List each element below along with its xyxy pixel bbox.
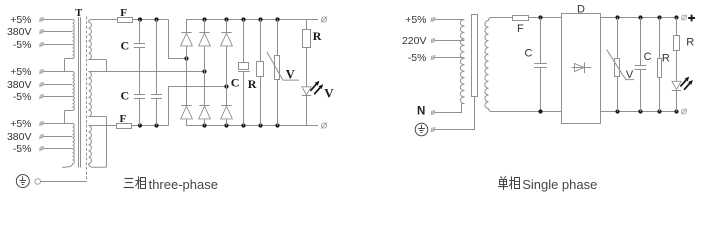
node negative rail x277.5 <box>275 123 279 127</box>
svg-text:+5%: +5% <box>10 66 31 78</box>
terminal row9 <box>40 147 43 150</box>
wire negative rail (single phase) <box>601 111 677 113</box>
bridge rectifier D box <box>562 14 601 124</box>
svg-text:380V: 380V <box>7 131 32 143</box>
svg-text:V: V <box>324 86 334 101</box>
wire ground to core <box>435 97 475 130</box>
single-phase terminal row3 <box>431 56 434 59</box>
wire tap row7 <box>43 123 72 125</box>
svg-text:C: C <box>121 88 130 102</box>
terminal row7 <box>40 122 43 125</box>
svg-text:C: C <box>644 51 652 63</box>
node negative rail x243.5 <box>241 123 245 127</box>
transformer primary winding (single phase) <box>460 20 464 104</box>
fuse F top <box>118 18 133 23</box>
transformer secondary winding (single phase) <box>489 18 513 21</box>
terminal row6 <box>40 95 43 98</box>
node negative rail sp x640.5 <box>638 109 642 113</box>
wire phase B <box>89 71 205 73</box>
svg-text:220V: 220V <box>402 35 427 47</box>
node positive rail x260.5 <box>258 17 262 21</box>
diode symbol inside D <box>572 67 592 69</box>
wire single-phase tap row2 <box>435 40 465 42</box>
wire primary bottom end <box>62 164 73 168</box>
ground terminal (single phase) <box>431 128 434 131</box>
diode D3 top (column 3) <box>226 20 228 33</box>
node filter cap bottom <box>538 109 542 113</box>
node phase C cap junction 1 <box>138 123 142 127</box>
wire N <box>435 104 465 113</box>
transformer T primary winding section 3 <box>73 124 75 164</box>
node positive rail x204.5 <box>202 17 206 21</box>
varistor V (single phase) <box>617 18 619 59</box>
wire secondary jog 1 <box>89 60 107 72</box>
node negative rail x204.5 <box>202 123 206 127</box>
N terminal <box>431 111 434 114</box>
svg-text:-5%: -5% <box>13 91 32 103</box>
wire column 2 mid <box>204 72 206 106</box>
svg-text:+5%: +5% <box>405 14 426 26</box>
wire phase A jog down <box>169 20 187 59</box>
node filter cap top <box>538 15 542 19</box>
node phase A cap junction 1 <box>138 17 142 21</box>
transformer T secondary winding section 3 <box>89 126 92 164</box>
svg-text:F: F <box>517 23 524 35</box>
varistor V <box>277 20 279 56</box>
terminal row1 <box>40 18 43 21</box>
wire tap row2 <box>43 31 72 33</box>
terminal positive output <box>321 17 326 22</box>
svg-text:-5%: -5% <box>13 39 32 51</box>
ground earth symbol (single phase) <box>415 123 428 136</box>
diode D6 bottom (column 3) <box>221 105 231 107</box>
svg-text:R: R <box>248 77 257 91</box>
transformer T secondary winding section 2 <box>89 72 92 117</box>
svg-text:V: V <box>286 68 295 82</box>
transformer T core line 2 <box>80 17 82 168</box>
single-phase terminal row1 <box>431 18 434 21</box>
wire tap row8 <box>43 136 72 138</box>
wire tap row9 <box>43 148 72 150</box>
transformer T core line 1 <box>78 17 80 168</box>
node positive rail x243.5 <box>241 17 245 21</box>
fuse F bottom <box>117 124 132 129</box>
node phase A bridge junction <box>184 56 188 60</box>
svg-text:V: V <box>626 69 634 81</box>
wire tap row4 <box>43 71 72 73</box>
LED V indicator <box>302 87 311 95</box>
svg-text:R: R <box>662 53 670 65</box>
caption three-phase hanzi xiang <box>135 176 145 189</box>
node positive rail sp x659.5 <box>657 15 661 19</box>
wire phase A <box>106 19 118 21</box>
node negative rail x260.5 <box>258 123 262 127</box>
diode D5 bottom (column 2) <box>199 105 209 107</box>
wire ground to shield <box>41 181 87 183</box>
svg-text:N: N <box>417 106 425 118</box>
diode D2 top (column 2) <box>204 20 206 33</box>
terminal row5 <box>40 83 43 86</box>
transformer T primary winding section 1 <box>73 20 75 59</box>
resistor R indicator (single phase) <box>676 18 678 36</box>
caption single-phase hanzi xiang <box>509 176 520 189</box>
node positive rail sp x676.5 <box>674 15 678 19</box>
wire single-phase tap row3 <box>435 57 465 59</box>
svg-text:C: C <box>121 39 130 53</box>
wire phase C <box>89 125 117 127</box>
capacitor C (single phase branch) <box>640 18 642 66</box>
transformer T secondary winding section 1 <box>89 20 113 23</box>
svg-text:-5%: -5% <box>408 52 427 64</box>
resistor R bleeder <box>260 20 262 62</box>
resistor R indicator <box>306 20 308 30</box>
node negative rail x226.5 <box>224 123 228 127</box>
svg-text:three-phase: three-phase <box>149 177 218 192</box>
wire tap row3 <box>43 44 72 46</box>
caption single-phase hanzi dan <box>498 176 508 190</box>
wire secondary jog 2 <box>89 117 107 126</box>
svg-text:380V: 380V <box>7 26 32 38</box>
node negative rail sp x659.5 <box>657 109 661 113</box>
wire tap row6 <box>43 96 72 98</box>
wire tap row5 <box>43 84 72 86</box>
capacitor C snubber (box style) <box>243 20 245 63</box>
wire tap row1 <box>43 19 72 21</box>
capacitor C3 (x=156.5) <box>156 20 158 95</box>
caption three-phase hanzi san <box>124 179 134 188</box>
diode D4 bottom (column 1) <box>181 105 191 107</box>
node positive rail sp x640.5 <box>638 15 642 19</box>
node positive rail x277.5 <box>275 17 279 21</box>
ground earth symbol <box>16 175 29 188</box>
transformer T shield dashed line <box>86 17 88 182</box>
wire positive rail <box>187 20 319 33</box>
node phase C bridge junction <box>224 84 228 88</box>
wire single-phase tap row1 <box>435 19 465 21</box>
svg-text:380V: 380V <box>7 79 32 91</box>
wire primary jog 1 <box>65 59 73 72</box>
svg-text:+5%: +5% <box>10 14 31 26</box>
wire primary jog 2 <box>65 111 73 124</box>
svg-text:Single phase: Single phase <box>522 177 597 192</box>
resistor R (single phase branch) <box>659 18 661 59</box>
wire column 3 mid <box>226 87 228 106</box>
terminal row8 <box>40 135 43 138</box>
single-phase terminal row2 <box>431 39 434 42</box>
wire negative rail <box>187 119 319 126</box>
capacitor C filter <box>540 18 542 64</box>
svg-text:R: R <box>313 29 322 43</box>
node negative rail sp x617.5 <box>615 109 619 113</box>
wire phase C jog up <box>169 87 227 126</box>
terminal row4 <box>40 70 43 73</box>
transformer T primary winding section 2 <box>73 72 75 111</box>
svg-text:C: C <box>231 76 240 90</box>
svg-text:R: R <box>686 37 694 49</box>
ground terminal circle <box>35 179 41 185</box>
node phase A cap junction 2 <box>154 17 158 21</box>
terminal row3 <box>40 43 43 46</box>
wire column 1 mid <box>186 59 188 106</box>
transformer core (single phase) <box>472 15 478 97</box>
svg-text:+5%: +5% <box>10 118 31 130</box>
diode D1 top (column 1) <box>186 20 188 33</box>
node phase B bridge junction <box>202 69 206 73</box>
capacitor C1 (phase A-B) <box>139 20 141 44</box>
wire secondary bottom end <box>89 126 107 168</box>
wire positive rail (single phase) <box>601 17 677 19</box>
plus sign <box>688 15 695 22</box>
terminal row2 <box>40 30 43 33</box>
node positive rail x226.5 <box>224 17 228 21</box>
fuse F (single phase) <box>513 16 529 21</box>
capacitor C2 (lower pair left) <box>134 94 145 96</box>
terminal negative output (single phase) <box>682 109 687 114</box>
node positive rail sp x617.5 <box>615 15 619 19</box>
svg-text:C: C <box>525 47 533 59</box>
svg-text:-5%: -5% <box>13 143 32 155</box>
terminal positive output (single phase) <box>682 15 687 20</box>
node negative rail sp x676.5 <box>674 109 678 113</box>
node phase C cap junction 2 <box>154 123 158 127</box>
terminal negative output <box>321 123 326 128</box>
LED indicator (single phase) <box>672 81 681 89</box>
